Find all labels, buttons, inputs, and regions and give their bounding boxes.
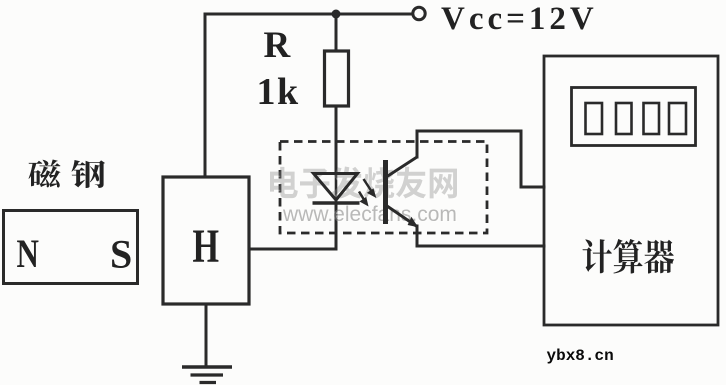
light arrow 1 bbox=[364, 179, 376, 197]
ground symbol bbox=[182, 367, 232, 383]
svg-text:1k: 1k bbox=[257, 71, 300, 113]
light arrow 2 bbox=[359, 192, 368, 206]
label Vcc=12V bbox=[441, 1, 598, 37]
wire resistor top bbox=[335, 14, 338, 51]
wire phototransistor emitter riser bbox=[416, 226, 419, 246]
svg-text:www.elecfans.com: www.elecfans.com bbox=[282, 203, 457, 226]
label 计算器 bbox=[583, 239, 675, 274]
wire hall sensor output to LED cathode bbox=[249, 248, 336, 251]
wire phototransistor collector riser bbox=[416, 131, 419, 157]
display window bbox=[572, 88, 696, 146]
wire top rail Vcc bbox=[205, 13, 412, 16]
label H bbox=[193, 220, 220, 273]
optocoupler U1 dashed outline bbox=[280, 142, 487, 234]
label S bbox=[110, 232, 132, 277]
svg-text:R: R bbox=[264, 25, 292, 66]
computer box bbox=[544, 56, 718, 325]
display digit segment 1 bbox=[586, 103, 603, 134]
svg-text:N: N bbox=[17, 231, 40, 276]
terminal circle Vcc bbox=[413, 7, 425, 19]
LED D1 cathode bar bbox=[313, 201, 360, 205]
phototransistor Q1 collector lead bbox=[387, 157, 417, 177]
svg-text:ybx8.cn: ybx8.cn bbox=[547, 347, 614, 365]
svg-text:H: H bbox=[193, 220, 220, 273]
wire through LED to cathode bar bbox=[335, 173, 338, 203]
wire resistor bottom to LED anode bbox=[335, 106, 338, 173]
wire collector to computer (top run) bbox=[417, 131, 544, 187]
LED D1 (emitter diode of optocoupler) bbox=[314, 174, 358, 201]
label 1k bbox=[257, 71, 300, 113]
phototransistor Q1 emitter lead bbox=[387, 206, 417, 227]
label R bbox=[264, 25, 292, 66]
watermark 电子发烧友网 bbox=[270, 167, 459, 201]
display digit segment 4 bbox=[669, 103, 686, 134]
display digit segment 3 bbox=[644, 103, 660, 134]
phototransistor Q1 base bar bbox=[383, 160, 388, 224]
svg-text:Vcc=12V: Vcc=12V bbox=[441, 1, 598, 37]
display digit segment 2 bbox=[616, 103, 632, 134]
wire LED cathode down bbox=[335, 203, 338, 249]
magnet bar N-S bbox=[4, 211, 138, 284]
wire hall sensor to ground bbox=[205, 304, 208, 366]
svg-text:S: S bbox=[110, 232, 132, 277]
wire left drop to hall sensor bbox=[204, 14, 207, 177]
label 磁钢 bbox=[29, 160, 106, 189]
wire emitter to computer (bottom run) bbox=[417, 245, 544, 248]
watermark www.elecfans.com bbox=[282, 203, 458, 227]
label N bbox=[17, 231, 40, 276]
junction dot at Vcc rail bbox=[332, 10, 341, 19]
resistor R 1k body bbox=[325, 51, 349, 106]
hall sensor H box bbox=[163, 177, 249, 304]
site mark ybx8.cn bbox=[547, 347, 614, 365]
